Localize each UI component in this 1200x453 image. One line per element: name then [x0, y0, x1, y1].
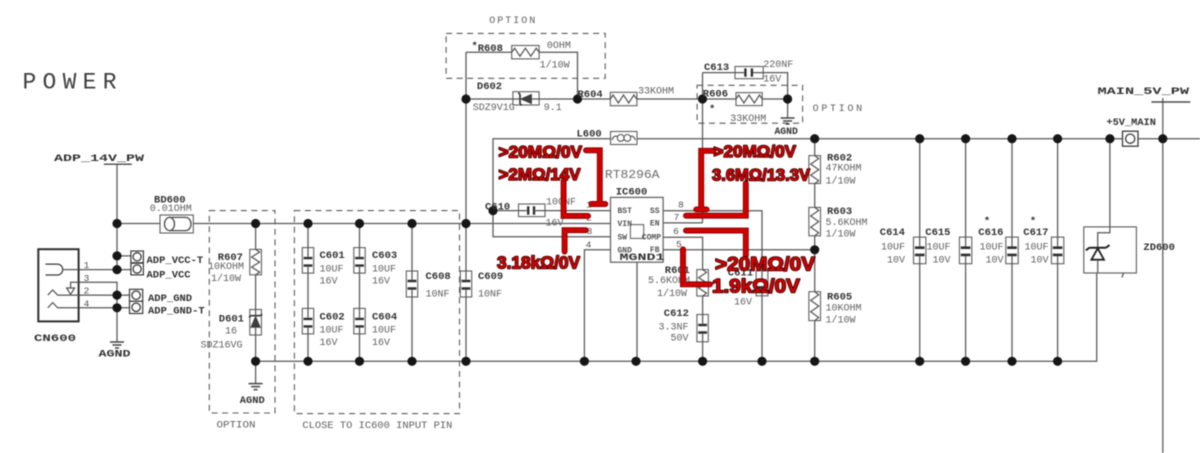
- wire test point ADP_VCC-T tap: [117, 255, 131, 257]
- junction C609 bottom on gnd rail: [461, 357, 470, 366]
- junction D601 bottom on gnd rail: [251, 357, 260, 366]
- ferrite bead BD600: [160, 215, 193, 233]
- junction D602 anode node: [461, 94, 470, 103]
- svg-text:>20MΩ/0V: >20MΩ/0V: [499, 142, 583, 161]
- red annotation line to pin7 EN: [686, 183, 746, 215]
- svg-text:1/10W: 1/10W: [826, 315, 856, 327]
- svg-text:1/10W: 1/10W: [826, 229, 856, 241]
- wire IC pin8 SS to C611 column: [663, 211, 762, 362]
- wire IC pin6 COMP to R601 C612 column: [663, 237, 703, 361]
- junction CN600 pin1 node: [112, 265, 121, 274]
- svg-text:8: 8: [678, 200, 684, 211]
- resistor R605: [809, 292, 821, 321]
- junction C616 bottom on gnd rail: [1007, 357, 1016, 366]
- red annotation line to pin5 FB: [683, 249, 710, 284]
- svg-text:*: *: [709, 104, 715, 116]
- svg-text:MAIN_5V_PW: MAIN_5V_PW: [1098, 86, 1191, 98]
- svg-text:47KOHM: 47KOHM: [826, 163, 862, 174]
- svg-text:+5V_MAIN: +5V_MAIN: [1106, 117, 1156, 129]
- svg-text:ADP_VCC-T: ADP_VCC-T: [147, 255, 204, 267]
- zener diode D602: [513, 92, 539, 106]
- resistor R607: [250, 249, 262, 274]
- wire net label underline ADP_14V_PW: [104, 163, 132, 165]
- inductor L600: [611, 132, 638, 145]
- svg-text:C615: C615: [925, 227, 950, 239]
- svg-text:3.6MΩ/13.3V: 3.6MΩ/13.3V: [712, 165, 811, 184]
- wire C610 left lead: [493, 210, 518, 212]
- junction COMP stem on gnd rail: [631, 357, 640, 366]
- wire D602 to R604: [539, 98, 610, 100]
- red annotation line to pin6 COMP: [686, 231, 746, 256]
- junction C610 to SW node: [488, 206, 497, 215]
- wire CN600 pin3 down to ground node: [79, 282, 118, 295]
- test point ADP_GND: [130, 289, 143, 301]
- svg-text:4: 4: [586, 239, 592, 250]
- svg-text:4: 4: [84, 298, 90, 309]
- svg-text:16V: 16V: [734, 298, 752, 309]
- svg-text:1: 1: [84, 260, 90, 271]
- svg-text:16V: 16V: [320, 338, 338, 349]
- wire C617 column: [1057, 139, 1059, 362]
- wire D602 left lead: [466, 98, 513, 100]
- junction FB divider node: [810, 245, 819, 254]
- svg-text:1/10W: 1/10W: [657, 288, 687, 300]
- wire IC pin5 FB to divider node: [663, 249, 815, 251]
- wire net label underline MAIN_5V_PW: [1151, 101, 1190, 103]
- wire R602 R603 R605 divider column: [814, 139, 816, 362]
- svg-text:1/10W: 1/10W: [211, 273, 241, 285]
- junction C612 bottom on gnd rail: [698, 357, 707, 366]
- svg-text:3.18kΩ/0V: 3.18kΩ/0V: [497, 252, 580, 272]
- wire C615 column: [965, 139, 967, 362]
- junction ZD600 top on 5V rail: [1105, 134, 1114, 143]
- junction R607 top on input rail: [251, 219, 260, 228]
- svg-text:9.1: 9.1: [544, 103, 562, 114]
- svg-text:R606: R606: [703, 88, 728, 100]
- junction C603 top on input rail: [355, 219, 364, 228]
- wire CN600 pin1 to test points: [79, 269, 131, 271]
- junction R604/R606/EN node: [698, 94, 707, 103]
- junction CN600 pin2 gnd node: [112, 291, 121, 300]
- zener diode D601: [249, 310, 262, 336]
- test point ADP_VCC: [131, 263, 144, 275]
- svg-text:10UF: 10UF: [979, 242, 1003, 253]
- svg-text:16: 16: [225, 327, 237, 338]
- junction R602 top on 5V rail: [810, 134, 819, 143]
- capacitor C614: [914, 237, 926, 264]
- capacitor C616: [1006, 237, 1018, 264]
- wire R606 node to box: [703, 98, 737, 100]
- wire EN node vertical to pin7: [702, 99, 704, 223]
- ground AGND under R606: [781, 118, 795, 124]
- svg-text:10UF: 10UF: [372, 264, 396, 275]
- wire R606 AGND stub: [787, 99, 789, 118]
- svg-text:6: 6: [673, 226, 679, 237]
- junction C614 bottom on gnd rail: [915, 357, 924, 366]
- dashed OPTION box around R608: [446, 33, 605, 78]
- red annotation line to pin1 BST: [586, 150, 605, 204]
- svg-text:AGND: AGND: [774, 126, 798, 138]
- svg-text:C603: C603: [372, 250, 397, 262]
- capacitor C602: [302, 308, 313, 334]
- svg-text:C601: C601: [320, 250, 345, 262]
- wire C601 C602 column: [307, 224, 309, 362]
- junction C614 top on 5V rail: [915, 134, 924, 143]
- svg-text:50V: 50V: [670, 333, 688, 344]
- capacitor C603: [354, 248, 365, 274]
- svg-text:C614: C614: [880, 227, 905, 239]
- wire CN600 pin4: [79, 307, 130, 309]
- connector CN600 body: [38, 249, 78, 321]
- junction C601 top on input rail: [303, 219, 312, 228]
- svg-text:CLOSE TO IC600 INPUT PIN: CLOSE TO IC600 INPUT PIN: [302, 421, 452, 432]
- svg-text:10V: 10V: [985, 256, 1003, 267]
- capacitor C609: [460, 271, 471, 297]
- test point +5V_MAIN: [1123, 131, 1139, 146]
- wire CN600 ground vertical to AGND: [116, 295, 118, 342]
- svg-text:16V: 16V: [546, 219, 564, 230]
- junction IC600 GND pin on gnd rail: [580, 357, 589, 366]
- svg-text:>2MΩ/14V: >2MΩ/14V: [499, 165, 582, 184]
- wire C616 column: [1011, 139, 1013, 362]
- svg-text:L600: L600: [577, 128, 602, 140]
- junction ADP_14V_PW rail: [112, 219, 121, 228]
- junction C615 top on 5V rail: [961, 134, 970, 143]
- junction C609 top on input rail: [461, 219, 470, 228]
- svg-text:33KOHM: 33KOHM: [730, 114, 766, 125]
- test point ADP_VCC-T: [131, 251, 144, 263]
- svg-text:ZD600: ZD600: [1143, 242, 1175, 254]
- svg-text:OPTION: OPTION: [217, 421, 256, 432]
- wire 5V output rail from L600 to right edge: [637, 138, 1200, 140]
- svg-text:3.3NF: 3.3NF: [658, 322, 688, 333]
- svg-text:AGND: AGND: [240, 395, 265, 407]
- svg-text:D601: D601: [219, 314, 244, 326]
- wire C613 left lead: [703, 73, 736, 99]
- wire R607 D601 column: [255, 224, 257, 384]
- svg-text:>20MΩ/0V: >20MΩ/0V: [715, 255, 815, 276]
- wire IC pin4 GND down to ground rail: [584, 250, 610, 361]
- svg-text:>20MΩ/0V: >20MΩ/0V: [714, 142, 797, 161]
- wire input rail left segment: [117, 223, 160, 225]
- wire R608/D602/C609 node column: [465, 52, 467, 361]
- capacitor C604: [354, 308, 365, 334]
- wire C614 column: [919, 139, 921, 362]
- svg-text:SW: SW: [618, 233, 628, 242]
- svg-text:R604: R604: [578, 89, 603, 101]
- svg-text:SS: SS: [650, 207, 660, 216]
- wire IC pin7 EN: [663, 222, 702, 224]
- wire ground rail with corner up to ZD600: [256, 273, 1097, 361]
- svg-text:ADP_GND-T: ADP_GND-T: [148, 306, 205, 318]
- svg-text:16V: 16V: [763, 74, 781, 85]
- dashed CLOSE TO IC600 INPUT PIN box: [294, 211, 459, 414]
- svg-text:10KOHM: 10KOHM: [208, 262, 244, 273]
- svg-text:1/10W: 1/10W: [826, 176, 856, 188]
- junction C604 bottom on gnd rail: [355, 357, 364, 366]
- svg-text:0OHM: 0OHM: [547, 41, 571, 52]
- resistor R604: [610, 92, 637, 105]
- op-amp IC600 body: [611, 197, 664, 262]
- junction ADP_VCC-T tap: [112, 251, 121, 260]
- resistor R602: [809, 156, 821, 184]
- dashed OPTION box around R607 D601: [209, 211, 275, 413]
- svg-text:D602: D602: [477, 81, 502, 93]
- capacitor C613: [735, 67, 763, 79]
- ground AGND under CN600: [110, 342, 124, 348]
- capacitor C601: [302, 248, 313, 274]
- svg-text:3: 3: [84, 273, 90, 284]
- svg-text:SDZ9V1G: SDZ9V1G: [473, 103, 515, 114]
- svg-text:0.01OHM: 0.01OHM: [150, 204, 192, 215]
- svg-text:C616: C616: [978, 227, 1003, 239]
- svg-text:16V: 16V: [372, 277, 390, 288]
- svg-text:C608: C608: [426, 271, 451, 283]
- svg-text:1.9kΩ/0V: 1.9kΩ/0V: [712, 276, 800, 297]
- wire R608 right lead: [539, 52, 577, 99]
- junction C608 bottom on gnd rail: [407, 357, 416, 366]
- svg-text:10V: 10V: [1030, 256, 1048, 267]
- svg-text:7: 7: [674, 212, 680, 223]
- svg-text:RT8296A: RT8296A: [605, 169, 660, 182]
- junction R605 bottom on gnd rail: [810, 357, 819, 366]
- svg-text:C610: C610: [485, 202, 510, 214]
- capacitor C608: [406, 271, 417, 297]
- svg-text:R608: R608: [478, 43, 503, 55]
- svg-text:10UF: 10UF: [372, 326, 396, 337]
- svg-text:10V: 10V: [932, 256, 950, 267]
- resistor R603: [809, 207, 821, 235]
- junction C615 bottom on gnd rail: [961, 357, 970, 366]
- svg-text:5.6KOHM: 5.6KOHM: [826, 218, 868, 229]
- capacitor C611: [756, 271, 768, 296]
- svg-text:C602: C602: [320, 312, 345, 324]
- svg-text:33KOHM: 33KOHM: [638, 87, 674, 98]
- junction C611 bottom on gnd rail: [757, 357, 766, 366]
- svg-text:AGND: AGND: [99, 348, 131, 360]
- svg-text:VIN: VIN: [618, 220, 633, 229]
- svg-text:10KOHM: 10KOHM: [826, 304, 862, 315]
- svg-text:10UF: 10UF: [1024, 242, 1048, 253]
- svg-text:MGND1: MGND1: [620, 252, 665, 264]
- svg-text:C604: C604: [372, 312, 397, 324]
- svg-text:ADP_14V_PW: ADP_14V_PW: [54, 153, 145, 165]
- svg-text:10NF: 10NF: [478, 290, 502, 301]
- svg-text:10NF: 10NF: [426, 290, 450, 301]
- capacitor C615: [959, 237, 971, 264]
- svg-text:ADP_GND: ADP_GND: [148, 293, 192, 305]
- svg-text:10UF: 10UF: [881, 242, 905, 253]
- svg-text:1/10W: 1/10W: [540, 59, 570, 71]
- resistor R601: [697, 270, 709, 296]
- junction R608/D602 cathode node: [573, 94, 582, 103]
- svg-text:10UF: 10UF: [320, 326, 344, 337]
- junction C602 bottom on gnd rail: [303, 357, 312, 366]
- wire R606 right lead: [762, 98, 787, 100]
- junction MAIN_5V_PW on 5V rail: [1158, 134, 1167, 143]
- zener diode ZD600: [1084, 227, 1137, 278]
- wire C608 column: [411, 224, 413, 362]
- junction C608 top on input rail: [407, 219, 416, 228]
- wire SW node: pin3 left, up, 5V rail into L600: [493, 139, 611, 237]
- junction C616 top on 5V rail: [1007, 134, 1016, 143]
- svg-text:IC600: IC600: [616, 187, 648, 199]
- dashed OPTION box around R606: [697, 85, 803, 123]
- capacitor C610: [519, 204, 546, 217]
- wire C610 right lead to IC pin1 BST: [543, 210, 611, 212]
- svg-text:C609: C609: [478, 271, 503, 283]
- junction C617 bottom on gnd rail: [1053, 357, 1062, 366]
- svg-text:COMP: COMP: [642, 234, 661, 243]
- ground AGND under D601: [249, 384, 263, 390]
- red annotation line to pin3 SW: [565, 230, 586, 251]
- svg-text:C612: C612: [664, 308, 689, 320]
- svg-text:SDZ16VG: SDZ16VG: [200, 341, 242, 352]
- svg-text:ADP_VCC: ADP_VCC: [147, 269, 192, 281]
- junction CN600 pin4 gnd node: [112, 303, 121, 312]
- wire CN600 pin2: [79, 294, 130, 296]
- junction C617 top on 5V rail: [1053, 134, 1062, 143]
- resistor R606: [736, 93, 762, 106]
- wire C613 right lead: [763, 73, 787, 99]
- capacitor C612: [697, 315, 708, 342]
- svg-text:C617: C617: [1023, 227, 1048, 239]
- node ADP_14V_PW vertical drop: [116, 164, 118, 270]
- svg-text:16V: 16V: [372, 338, 390, 349]
- svg-text:10V: 10V: [887, 256, 905, 267]
- junction R606/C613 AGND node: [783, 94, 792, 103]
- wire ZD600 top jog from 5V rail: [1098, 139, 1110, 248]
- resistor R608: [512, 46, 539, 59]
- wire R604 to R606 node: [637, 98, 703, 100]
- svg-text:EN: EN: [650, 219, 660, 228]
- capacitor C617: [1051, 237, 1063, 264]
- svg-text:16V: 16V: [320, 277, 338, 288]
- svg-text:BST: BST: [618, 207, 633, 216]
- test point ADP_GND-T: [130, 301, 143, 313]
- wire MAIN_5V_PW vertical through rail to bottom edge: [1162, 98, 1164, 453]
- svg-text:R605: R605: [827, 292, 852, 304]
- svg-text:C613: C613: [704, 62, 729, 74]
- svg-text:10UF: 10UF: [320, 264, 344, 275]
- wire R608 left lead: [466, 51, 512, 53]
- wire COMP square stem to ground: [636, 238, 638, 361]
- red annotation line to pin8 SS: [696, 151, 713, 210]
- svg-text:10UF: 10UF: [926, 242, 950, 253]
- svg-text:2: 2: [84, 286, 90, 297]
- wire C603 C604 column: [359, 224, 361, 362]
- svg-text:CN600: CN600: [34, 333, 76, 345]
- red annotation line to pin2 VIN: [564, 181, 588, 216]
- wire input rail main segment to IC pin2 VIN: [193, 223, 610, 225]
- svg-text:220NF: 220NF: [763, 60, 793, 71]
- svg-text:R603: R603: [827, 206, 852, 218]
